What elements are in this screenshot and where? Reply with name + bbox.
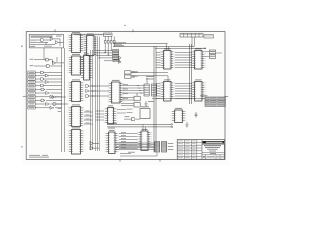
wires group2 xyxy=(35,90,62,108)
resistor pack RP2 xyxy=(152,84,157,96)
net label box N4 xyxy=(113,57,119,59)
title block xyxy=(177,140,224,160)
resistor pack RP1 xyxy=(144,84,149,96)
spare gate box G1 xyxy=(125,71,139,74)
IC U16 74LS00 xyxy=(171,108,187,123)
vertical bus pair center xyxy=(154,46,156,152)
IC U9 74LS244 xyxy=(160,79,175,101)
wire from G boxes xyxy=(131,71,168,84)
label row under resistors xyxy=(114,43,122,46)
spare gate box G2 xyxy=(125,75,139,78)
wires U7 to U8 xyxy=(175,53,192,68)
wires group1 xyxy=(35,73,62,86)
wire rows bus to U12 xyxy=(96,111,105,120)
IC U8 74LS374 xyxy=(191,48,206,69)
IC U1 74LS04 xyxy=(68,32,85,53)
zone tick left xyxy=(23,95,27,97)
left input signal labels group 2 xyxy=(28,88,35,109)
wires around U11 xyxy=(124,116,140,119)
vertical bus pair right xyxy=(190,44,192,104)
crystal Y1 xyxy=(134,93,140,101)
IC U13 74LS138 xyxy=(105,130,119,154)
capacitor C2 xyxy=(195,112,198,118)
wires gates to bus xyxy=(91,86,100,148)
gate E2 xyxy=(86,90,90,93)
wires bus to U7 left xyxy=(156,53,161,68)
gate B1 xyxy=(41,71,45,74)
junction dot xyxy=(204,48,205,49)
subcircuit title text xyxy=(31,36,53,38)
buffer F1 xyxy=(90,141,93,145)
net label rows xyxy=(30,36,61,47)
wires U12 outputs xyxy=(117,109,133,113)
title text lines xyxy=(202,144,225,151)
wire clock pair 1 xyxy=(107,123,173,125)
gate C5 xyxy=(46,103,50,106)
gate K1 xyxy=(119,56,122,59)
gate C4 xyxy=(41,99,45,102)
signal name table xyxy=(200,95,225,106)
gate B3 xyxy=(41,78,45,81)
gate B5 xyxy=(41,84,45,87)
wire bottom run xyxy=(120,153,157,157)
buffer A3 xyxy=(55,41,58,44)
revision history table xyxy=(180,33,203,37)
wire SYNC long 2 xyxy=(113,45,194,46)
pullup resistor R4 xyxy=(113,37,115,47)
IC U17 6331 PROM xyxy=(108,80,124,103)
reference box xyxy=(204,35,214,38)
gate chain row D1 xyxy=(52,95,66,98)
dashed box video sync subcircuit xyxy=(29,34,63,48)
zone tick bottom xyxy=(120,159,160,162)
wire rows U13 to U15 xyxy=(119,132,138,148)
company logo bar xyxy=(203,141,225,144)
gate C2 xyxy=(46,92,50,95)
pullup resistor R1 xyxy=(104,37,106,53)
buffer F2 xyxy=(90,146,93,150)
wire SYNC long 1 xyxy=(113,42,168,43)
wire clock pair 2 xyxy=(107,126,173,128)
IC U15 74LS245 xyxy=(137,129,152,151)
bus tap labels left xyxy=(58,108,61,112)
gate A1 xyxy=(41,39,44,42)
wires to crystal xyxy=(121,98,134,106)
net label box N2 xyxy=(113,52,119,54)
pullup resistor R3 xyxy=(110,37,112,51)
top horizontal bus wire xyxy=(74,34,104,36)
wires U17 to RP stacks xyxy=(123,85,145,94)
wire across cluster top xyxy=(155,47,206,49)
vertical bus pair mid-left xyxy=(91,50,93,150)
gate A6 xyxy=(47,65,50,68)
wires U9 to U10 xyxy=(175,84,192,99)
net label box N5 xyxy=(113,60,119,62)
IC U12 74LS139 xyxy=(104,105,118,124)
gate B4 xyxy=(45,81,49,84)
net label box N1 xyxy=(113,50,119,52)
resistor pack RP3 xyxy=(155,142,160,153)
vertical bus net lines left xyxy=(62,48,65,152)
wire bundle to RP xyxy=(116,143,155,149)
net label box N3 xyxy=(113,55,119,57)
gate chain row D2 xyxy=(53,103,68,106)
gate A5 xyxy=(53,61,56,64)
resistor pack RP4 xyxy=(162,142,167,153)
wire top bus to J2 xyxy=(190,37,206,48)
wires below subcircuit xyxy=(30,48,65,66)
gate C3 xyxy=(50,95,54,98)
left input signal labels group 1 xyxy=(28,71,35,87)
zone letter marks xyxy=(21,25,126,148)
IC U6 74LS74 xyxy=(83,33,98,55)
IC U6B 74LS393 xyxy=(80,53,94,80)
gate A4 xyxy=(46,58,50,61)
IC U3 74LS161 xyxy=(68,79,85,101)
wires to net label boxes xyxy=(96,51,113,61)
wire stub bottom xyxy=(120,152,135,154)
net label box P1 xyxy=(209,50,215,54)
net labels left of U9 xyxy=(146,76,154,102)
labels right of RP xyxy=(168,143,174,150)
IC U11 oscillator xyxy=(140,106,150,118)
gate B2 xyxy=(45,74,49,77)
wire cluster to right edge xyxy=(205,52,223,57)
zone tick right xyxy=(225,96,229,98)
net label box P2 xyxy=(209,55,215,59)
buffer A2 xyxy=(50,37,53,40)
net label box top xyxy=(104,33,113,36)
gate E1 xyxy=(86,85,90,88)
speckle noise xyxy=(30,40,217,156)
IC U7 74LS374 xyxy=(160,48,175,69)
gate C1 xyxy=(41,88,45,91)
notes text bottom left xyxy=(29,155,49,158)
wire drops U15 top xyxy=(143,124,146,131)
IC U2 74LS161 xyxy=(68,54,85,75)
wires bus to U9 left xyxy=(156,84,161,99)
capacitor C1 box xyxy=(134,102,140,107)
wire drops to U7 xyxy=(167,44,169,51)
ground GND2 xyxy=(185,122,188,127)
wires in subcircuit xyxy=(37,39,63,46)
gate C6 xyxy=(50,106,54,109)
gate E3 xyxy=(86,95,90,98)
drawing number row xyxy=(202,153,225,160)
pullup resistor R2 xyxy=(107,37,109,55)
wire rows B4 to bus xyxy=(84,111,93,125)
vertical bus net lines middle xyxy=(96,37,100,152)
IC U5 74LS244 xyxy=(68,127,85,154)
IC U4 74LS244 xyxy=(68,104,85,126)
zone tick top xyxy=(55,29,133,32)
title block approval grid xyxy=(177,140,202,160)
gate K2 xyxy=(119,60,122,63)
ground GND1 xyxy=(144,101,147,106)
IC U10 74LS244 xyxy=(191,79,206,101)
wire to signal table xyxy=(152,98,205,100)
wires gates to U17 xyxy=(91,85,129,99)
gate H1 xyxy=(132,118,136,121)
